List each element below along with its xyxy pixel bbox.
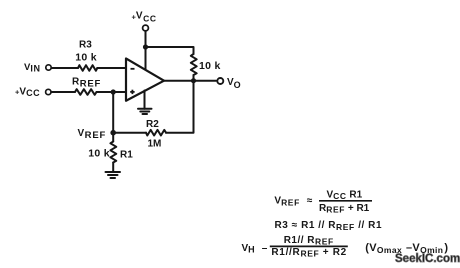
VO terminal circle (217, 78, 223, 84)
svg-text:VCC R1: VCC R1 (327, 189, 363, 201)
svg-text:R1: R1 (120, 150, 133, 161)
svg-text:10 k: 10 k (88, 148, 110, 160)
junction: VCC rail (143, 44, 148, 49)
wire: RREF to op-amp non-inverting input (97, 91, 127, 93)
wire: +VCC terminal down through rail junction into op-amp top edge (145, 31, 147, 69)
svg-text:R2: R2 (146, 119, 159, 130)
resistor R2 1M (horizontal) (146, 130, 166, 136)
svg-text:+VCC: +VCC (132, 11, 157, 24)
svg-text:VO: VO (227, 77, 241, 90)
svg-text:VREF≈: VREF≈ (274, 196, 312, 208)
svg-text:+VCC: +VCC (15, 87, 40, 99)
svg-text:10 k: 10 k (75, 52, 97, 64)
resistor R1 10k (vertical) (110, 142, 116, 163)
svg-text:R1// RREF: R1// RREF (284, 235, 334, 247)
+VCC terminal circle (left) (46, 89, 51, 94)
svg-text:R1//RREF + R2: R1//RREF + R2 (271, 247, 347, 259)
wire: R3 to op-amp inverting input (97, 67, 126, 69)
svg-text:VREF: VREF (78, 128, 107, 141)
wire: pull-up bottom to output node (193, 75, 195, 81)
svg-text:SeekIC.com: SeekIC.com (395, 253, 460, 265)
resistor 10k pull-up (vertical) (191, 54, 197, 75)
formula 3: VH = (R1//RREF)/(R1//RREF + R2) (VOmax - VOmin) (242, 235, 449, 259)
wire: +VCC left terminal to RREF (51, 91, 76, 93)
op-amp non-inverting input mark (130, 90, 134, 94)
svg-text:1M: 1M (148, 139, 162, 150)
node: output junction (191, 78, 196, 83)
wire: op-amp output to VO terminal (164, 80, 216, 82)
f1 fraction bar (319, 200, 372, 202)
ground (below R1) (106, 172, 121, 178)
wire: output node down and left to R2 right end (166, 81, 194, 133)
wire: R2 left end to VREF node (113, 132, 146, 134)
svg-text:10 k: 10 k (199, 60, 221, 72)
op-amp inverting input mark (131, 68, 135, 70)
svg-text:RREF: RREF (72, 77, 101, 90)
svg-text:VIN: VIN (24, 62, 41, 74)
op-amp U1 triangle (126, 59, 164, 101)
formula 1: VREF = VCC R1 / (RREF + R1) (274, 189, 372, 214)
+VCC terminal circle (top) (143, 25, 149, 31)
svg-text:VH–: VH– (242, 243, 268, 255)
node: non-inverting input junction (111, 89, 116, 94)
ground (op-amp) (138, 109, 152, 114)
svg-text:R3: R3 (79, 40, 92, 51)
wire: VREF node to R1 top (112, 133, 114, 142)
wire: VCC rail junction to 10k pull-up top (146, 47, 194, 54)
svg-text:RREF + R1: RREF + R1 (319, 203, 370, 215)
node VREF junction (110, 130, 116, 136)
wire: non-inverting input junction down to VREF node (112, 92, 114, 133)
svg-text:R3 ≈ R1 // RREF // R1: R3 ≈ R1 // RREF // R1 (275, 220, 383, 232)
wire: VIN terminal to R3 (51, 67, 79, 69)
resistor RREF (horizontal) (75, 89, 97, 95)
resistor R3 10k (horizontal) (78, 65, 97, 71)
wire: R1 bottom to ground (112, 163, 114, 173)
f3 fraction bar (270, 245, 348, 247)
VIN terminal circle (46, 65, 51, 70)
wire: op-amp bottom to ground stub (144, 91, 146, 109)
